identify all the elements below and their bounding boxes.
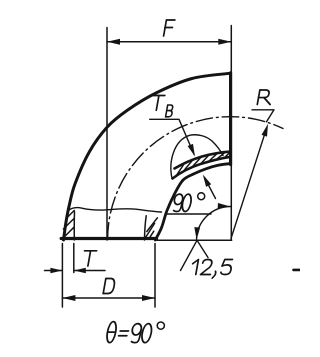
outer arc of elbow <box>64 73 231 240</box>
band bottom edge (thick) of T_B section <box>173 157 231 179</box>
wire: F left extension / centerline of bottom end <box>106 28 108 241</box>
roughness mark legs at corner <box>181 240 209 270</box>
wire: F right extension line above elbow <box>230 26 232 73</box>
hatching of T_B wall band <box>177 152 231 175</box>
dome freehand break line of T_B section <box>171 135 223 179</box>
D dimension line with arrows <box>62 297 155 299</box>
leader T_B with arrow <box>150 119 194 154</box>
stray dash at right edge <box>294 269 302 272</box>
T dimension arrows (outside) <box>45 270 106 272</box>
wire: bore line left in bottom section <box>73 212 75 240</box>
leader underline for 90 label <box>167 213 212 215</box>
hatching of right wall section <box>145 218 157 239</box>
R label underline and leg <box>252 110 274 122</box>
wire: right face extension down to corner O <box>230 165 232 241</box>
wire: bore line right in bottom section <box>145 216 147 240</box>
label 90 deg <box>172 194 183 211</box>
label TB <box>150 96 164 111</box>
label F <box>163 20 175 36</box>
T dimension extension lines <box>62 244 73 308</box>
label theta=90 <box>106 322 118 343</box>
dimension F line <box>107 41 231 43</box>
R radius dimension line with arrow <box>231 129 267 239</box>
wavy freehand break line of bottom section <box>68 208 162 212</box>
inner arc of elbow <box>155 164 230 241</box>
wire: thin line from bottom face to corner O <box>157 239 232 241</box>
label D <box>103 279 115 294</box>
label R <box>257 90 272 105</box>
centerline dash-dot arc <box>108 117 283 239</box>
arrow from below to inner arc <box>205 178 216 199</box>
right face thick line <box>229 73 232 165</box>
band top edge / bore arc (thick) of T_B section <box>175 152 231 169</box>
90-degree angle dimension arc <box>197 207 231 241</box>
label T <box>82 251 97 266</box>
label 12,5 <box>191 260 199 275</box>
D dimension extension line right <box>154 244 156 308</box>
hatching of left wall section <box>63 210 74 237</box>
bottom face thick line <box>61 237 156 240</box>
